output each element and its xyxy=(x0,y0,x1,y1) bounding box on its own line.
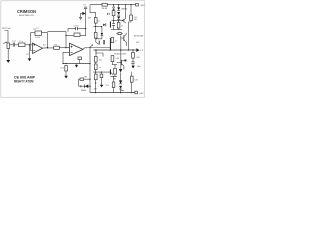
limiter diode xyxy=(85,84,88,88)
ground bias xyxy=(79,17,82,19)
svg-text:C2: C2 xyxy=(36,28,39,30)
node 26a xyxy=(95,26,96,27)
diode Dn2 xyxy=(119,81,122,84)
resistor Rn3 xyxy=(112,82,115,88)
limiter bar xyxy=(80,85,82,87)
vas arrow mark xyxy=(90,45,93,48)
svg-text:-50V: -50V xyxy=(139,93,144,95)
wire R1 to op-amp xyxy=(25,44,33,46)
output transistor bar top xyxy=(110,38,111,50)
resistor Rc1 xyxy=(94,56,97,62)
TR5 emitter diag xyxy=(124,21,126,23)
cap box stem xyxy=(79,60,81,64)
cap Cb xyxy=(112,22,115,25)
diode drop xyxy=(101,27,103,33)
diode Db xyxy=(117,12,120,15)
chain mid wire xyxy=(120,72,122,80)
diode Dc xyxy=(117,16,120,19)
TR7 emitter xyxy=(122,64,124,70)
svg-text:22k: 22k xyxy=(105,85,109,87)
svg-text:INPUT 775mV: INPUT 775mV xyxy=(2,28,11,30)
inductor L1 bar xyxy=(103,40,104,44)
op-amp IC2 xyxy=(70,43,84,55)
node rail a xyxy=(113,4,114,5)
minus mark 2 xyxy=(71,51,73,53)
cap stub xyxy=(113,21,115,24)
TR6 collector xyxy=(124,33,126,37)
R20 fuse box xyxy=(102,3,107,6)
chain wire 2 xyxy=(95,62,97,64)
Rz bottom xyxy=(113,16,115,21)
node riser out xyxy=(120,49,121,50)
zobel ground stub xyxy=(132,64,134,66)
ground R16 xyxy=(64,76,68,79)
chain wire 3 xyxy=(95,70,97,75)
step wire xyxy=(96,50,103,57)
minus input wire 2 xyxy=(63,52,70,63)
output bus xyxy=(94,49,137,51)
op-amp stage 2 wire in xyxy=(66,47,70,49)
diode Dn3 xyxy=(119,86,122,89)
limiter top wire xyxy=(79,78,91,80)
bottom rail xyxy=(90,92,135,94)
resistor Rb xyxy=(117,22,120,28)
pot ground wire xyxy=(7,49,9,61)
node bias junction xyxy=(29,44,30,45)
node chain rail xyxy=(95,92,96,93)
svg-text:2u2: 2u2 xyxy=(12,40,16,42)
svg-text:330 1W: 330 1W xyxy=(102,8,108,10)
potentiometer VR1 xyxy=(7,43,10,49)
ground mid xyxy=(75,65,78,68)
chain stub xyxy=(118,5,120,8)
ground mid stub xyxy=(76,64,78,65)
resistor Rn2 xyxy=(114,68,117,74)
node chain rail 2 xyxy=(120,92,121,93)
resistor Rd xyxy=(111,38,114,43)
svg-text:10uF: 10uF xyxy=(88,17,91,19)
wire R9 to stage2 xyxy=(59,47,69,49)
plus mark 2 xyxy=(71,46,73,48)
wire y76.5 xyxy=(110,76,117,78)
ground input bias xyxy=(28,58,32,61)
resistor R1 xyxy=(19,43,26,47)
resistor Rz xyxy=(112,11,115,16)
feedback wire top left xyxy=(31,32,36,34)
wire y26.6 xyxy=(93,26,102,28)
node 72a xyxy=(95,72,96,73)
terminal -50V xyxy=(135,91,138,94)
Rr2 top wire xyxy=(95,27,97,33)
wire wiper to C1 xyxy=(10,44,13,46)
svg-text:2N3055: 2N3055 xyxy=(81,90,86,92)
riser x120.8 xyxy=(120,35,122,69)
diode Dn1 xyxy=(119,70,122,73)
wire feedback bottom xyxy=(63,63,90,65)
minus input wire xyxy=(31,33,33,51)
wire y20.6 xyxy=(112,20,122,22)
bias wire y72.1 xyxy=(93,71,110,73)
chain bar 4 xyxy=(119,88,122,90)
limiter left drop xyxy=(78,79,80,86)
rail corner bottom xyxy=(89,64,91,93)
wire input drop xyxy=(5,31,9,44)
TR6 bar xyxy=(123,35,125,41)
cap bottom xyxy=(113,26,115,30)
Rb bottom stub xyxy=(118,28,120,30)
svg-text:1k: 1k xyxy=(99,67,101,69)
bias resistor drop wire xyxy=(29,45,31,59)
node C7 join xyxy=(85,28,86,29)
wire amp2 out xyxy=(83,48,110,50)
dropper wire xyxy=(130,5,132,15)
terminal +50V xyxy=(136,3,139,6)
ground zobel xyxy=(131,66,134,69)
rail top xyxy=(90,4,136,6)
node rail b xyxy=(118,4,119,5)
feedback wire right xyxy=(42,33,48,48)
svg-text:1k: 1k xyxy=(98,20,100,22)
node Rn3 wire xyxy=(113,76,114,77)
limiter diode bar xyxy=(84,85,86,89)
svg-text:22k: 22k xyxy=(60,67,64,69)
resistor R9 xyxy=(54,46,60,49)
zener wire xyxy=(113,10,115,11)
wire C1 to R1 xyxy=(15,44,19,46)
resistor Rr2 xyxy=(94,33,97,39)
svg-text:47: 47 xyxy=(121,26,123,28)
cap box small xyxy=(78,57,82,60)
node chain mid xyxy=(95,82,96,83)
node z xyxy=(113,20,114,21)
resistor R12 xyxy=(74,33,80,36)
capacitor C7 xyxy=(74,27,77,30)
speaker arrow xyxy=(136,48,139,52)
svg-text:560: 560 xyxy=(116,58,119,60)
chain tick xyxy=(121,89,124,91)
chain bar 2 xyxy=(119,80,122,82)
diode Da xyxy=(117,7,120,10)
TR2 scribble xyxy=(96,39,99,45)
svg-text:100n: 100n xyxy=(137,66,141,68)
svg-text:+50V: +50V xyxy=(140,5,146,7)
preset stub top xyxy=(100,72,102,74)
TR4 arrow xyxy=(103,24,105,26)
wire R feedback 2 xyxy=(66,35,86,37)
node rail c xyxy=(125,4,126,5)
Rn2 bottom stub xyxy=(114,74,116,76)
chain top wire xyxy=(95,50,97,56)
Rr1 bottom wire xyxy=(95,23,97,27)
resistor Rr1 xyxy=(94,18,97,24)
ground preset xyxy=(100,85,104,88)
wire chain bottom xyxy=(118,20,120,21)
svg-text:MIGHTY ATOM: MIGHTY ATOM xyxy=(14,79,34,83)
svg-text:C9: C9 xyxy=(83,5,86,7)
node bus left xyxy=(95,49,96,50)
chain wire 4 xyxy=(95,80,97,93)
node riser mid xyxy=(65,35,66,36)
wire diode anode stub xyxy=(81,13,83,17)
svg-text:40P: 40P xyxy=(136,42,139,44)
pot wiper arrow xyxy=(3,42,6,44)
node lim a xyxy=(89,79,90,80)
diode D1 xyxy=(82,12,85,15)
node x90 top xyxy=(89,47,90,48)
TR6 emitter xyxy=(124,40,127,46)
chain to rail xyxy=(120,89,122,93)
svg-text:4k7: 4k7 xyxy=(94,89,97,91)
R16 ground wire xyxy=(65,71,67,76)
node rail d xyxy=(130,4,131,5)
TR4 bar xyxy=(105,23,107,26)
svg-text:100k: 100k xyxy=(35,37,40,39)
TR5 collector wire xyxy=(124,5,126,20)
Rn3 bottom stem xyxy=(113,88,115,93)
svg-text:ELEKTRIK LTD: ELEKTRIK LTD xyxy=(19,15,34,17)
node bus join xyxy=(89,63,90,64)
node x128 out xyxy=(128,49,129,50)
border frame xyxy=(1,1,145,97)
resistor Rc3 xyxy=(94,74,97,80)
resistor Rc2 xyxy=(94,64,97,70)
limiter box xyxy=(80,78,84,80)
svg-text:1k: 1k xyxy=(115,41,117,43)
resistor R16 xyxy=(65,66,68,71)
zobel cap xyxy=(131,61,134,64)
node feedback/output xyxy=(47,47,48,48)
capacitor C1 xyxy=(12,43,15,47)
svg-text:1k0: 1k0 xyxy=(99,60,102,62)
zener stub xyxy=(113,5,115,7)
wire C7 top branch xyxy=(68,29,86,32)
TR4 body bar xyxy=(110,22,111,28)
output transistor bar bottom xyxy=(110,69,111,74)
svg-text:TR9: TR9 xyxy=(84,76,87,78)
wire comp top xyxy=(48,31,67,33)
small box stub xyxy=(116,33,123,35)
node fb xyxy=(62,63,63,64)
svg-text:C7 47u: C7 47u xyxy=(74,25,80,27)
diode D3 xyxy=(101,33,104,36)
limiter bottom wire xyxy=(79,85,91,87)
stage2 input riser xyxy=(65,32,67,48)
Rn3 top stem xyxy=(113,77,115,83)
preset stub bottom xyxy=(100,78,102,85)
node 72b xyxy=(101,72,102,73)
op-amp IC1 xyxy=(33,43,43,54)
rail corner drop xyxy=(90,5,96,18)
svg-text:150: 150 xyxy=(134,17,137,19)
ground pot xyxy=(6,60,10,63)
Rb top xyxy=(118,21,120,23)
zobel resistor xyxy=(132,52,135,58)
wire y38.8 xyxy=(96,37,102,40)
preset box xyxy=(100,74,103,78)
node 26b xyxy=(101,26,102,27)
resistor Rneg xyxy=(130,76,133,82)
node out bar xyxy=(110,49,111,50)
node chain xyxy=(118,20,119,21)
wire C9 down xyxy=(85,9,87,36)
Rn2 stub xyxy=(114,65,116,69)
diode bottom wire xyxy=(101,36,103,39)
resistor R24 xyxy=(130,15,133,21)
node rneg rail xyxy=(131,92,132,93)
TR7 bar xyxy=(121,60,123,65)
wire x90 upper xyxy=(89,48,91,64)
R24 bottom bend xyxy=(129,21,132,50)
mini cap top xyxy=(106,13,109,15)
Rneg bottom xyxy=(131,82,133,92)
node stage2 input xyxy=(65,47,66,48)
TR7 collector blob xyxy=(124,60,126,62)
svg-text:MJE340: MJE340 xyxy=(122,8,128,10)
svg-text:MJ802 100W: MJ802 100W xyxy=(114,54,126,56)
TR8 emitter diag xyxy=(111,72,113,75)
Rn1 bend xyxy=(112,62,117,65)
TR5 base arrow xyxy=(122,20,124,22)
stage1 output wire xyxy=(43,47,54,49)
node R16 xyxy=(65,63,66,64)
node lim b xyxy=(89,86,90,87)
minus mark xyxy=(33,50,35,52)
chain bar 3 xyxy=(119,83,122,85)
small box mid xyxy=(118,32,121,34)
svg-text:R2: R2 xyxy=(26,54,28,56)
zener D xyxy=(113,7,115,9)
upper box Rn1 xyxy=(111,56,114,62)
zobel cap stub xyxy=(132,58,134,61)
svg-text:IC1: IC1 xyxy=(43,44,46,46)
zobel R stub xyxy=(132,50,134,52)
node zobel xyxy=(132,49,133,50)
chain bar top xyxy=(119,68,122,70)
TR7 collector wire xyxy=(122,59,125,62)
capacitor C9 xyxy=(84,6,87,9)
wire y29.6 xyxy=(111,29,122,31)
TR6 base xyxy=(121,37,124,39)
Rneg stub xyxy=(131,72,133,76)
feedback resistor R5 xyxy=(35,31,42,35)
svg-text:CRIMSON: CRIMSON xyxy=(17,9,37,14)
svg-text:BDY56 100W: BDY56 100W xyxy=(134,35,144,37)
plus mark xyxy=(33,44,35,46)
TR7 base wire xyxy=(117,61,122,63)
